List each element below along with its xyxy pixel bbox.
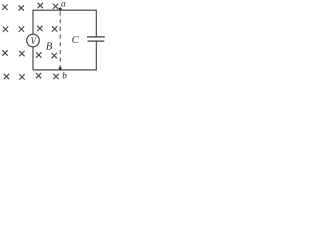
field cross row4 col2 — [19, 74, 24, 79]
wire right lower — [95, 41, 97, 70]
field cross row2 col2 — [19, 27, 24, 32]
field cross row2 col4 — [52, 26, 57, 31]
svg-text:a: a — [61, 0, 66, 10]
wire left lower — [32, 47, 34, 70]
field cross row1 col2 — [19, 5, 24, 10]
field cross row3 col2 — [19, 51, 24, 56]
capacitor bottom plate — [88, 40, 105, 42]
field cross row1 col3 — [38, 3, 43, 8]
field cross row2 col1 — [3, 27, 8, 32]
field cross row4 col4 — [53, 74, 58, 79]
field cross row4 col3 — [36, 73, 41, 78]
wire bottom — [33, 69, 96, 71]
field cross row3 col1 — [2, 50, 7, 55]
node b dot — [59, 67, 62, 70]
field cross row3 col4 — [52, 53, 57, 58]
node a dot — [59, 8, 62, 11]
capacitor top plate — [87, 36, 105, 38]
field cross row1 col1 — [2, 5, 7, 10]
wire left upper — [32, 10, 34, 35]
svg-text:B: B — [46, 41, 53, 53]
svg-text:C: C — [72, 34, 80, 46]
field cross row4 col1 — [4, 74, 9, 79]
voltmeter circle — [27, 34, 40, 47]
wire top — [33, 9, 96, 11]
field cross row1 col4 — [53, 4, 58, 9]
wire right upper — [95, 10, 97, 37]
svg-text:b: b — [62, 71, 67, 81]
field cross row3 col3 — [36, 52, 41, 57]
field cross row2 col3 — [37, 26, 42, 31]
dashed line ab — [59, 11, 61, 69]
